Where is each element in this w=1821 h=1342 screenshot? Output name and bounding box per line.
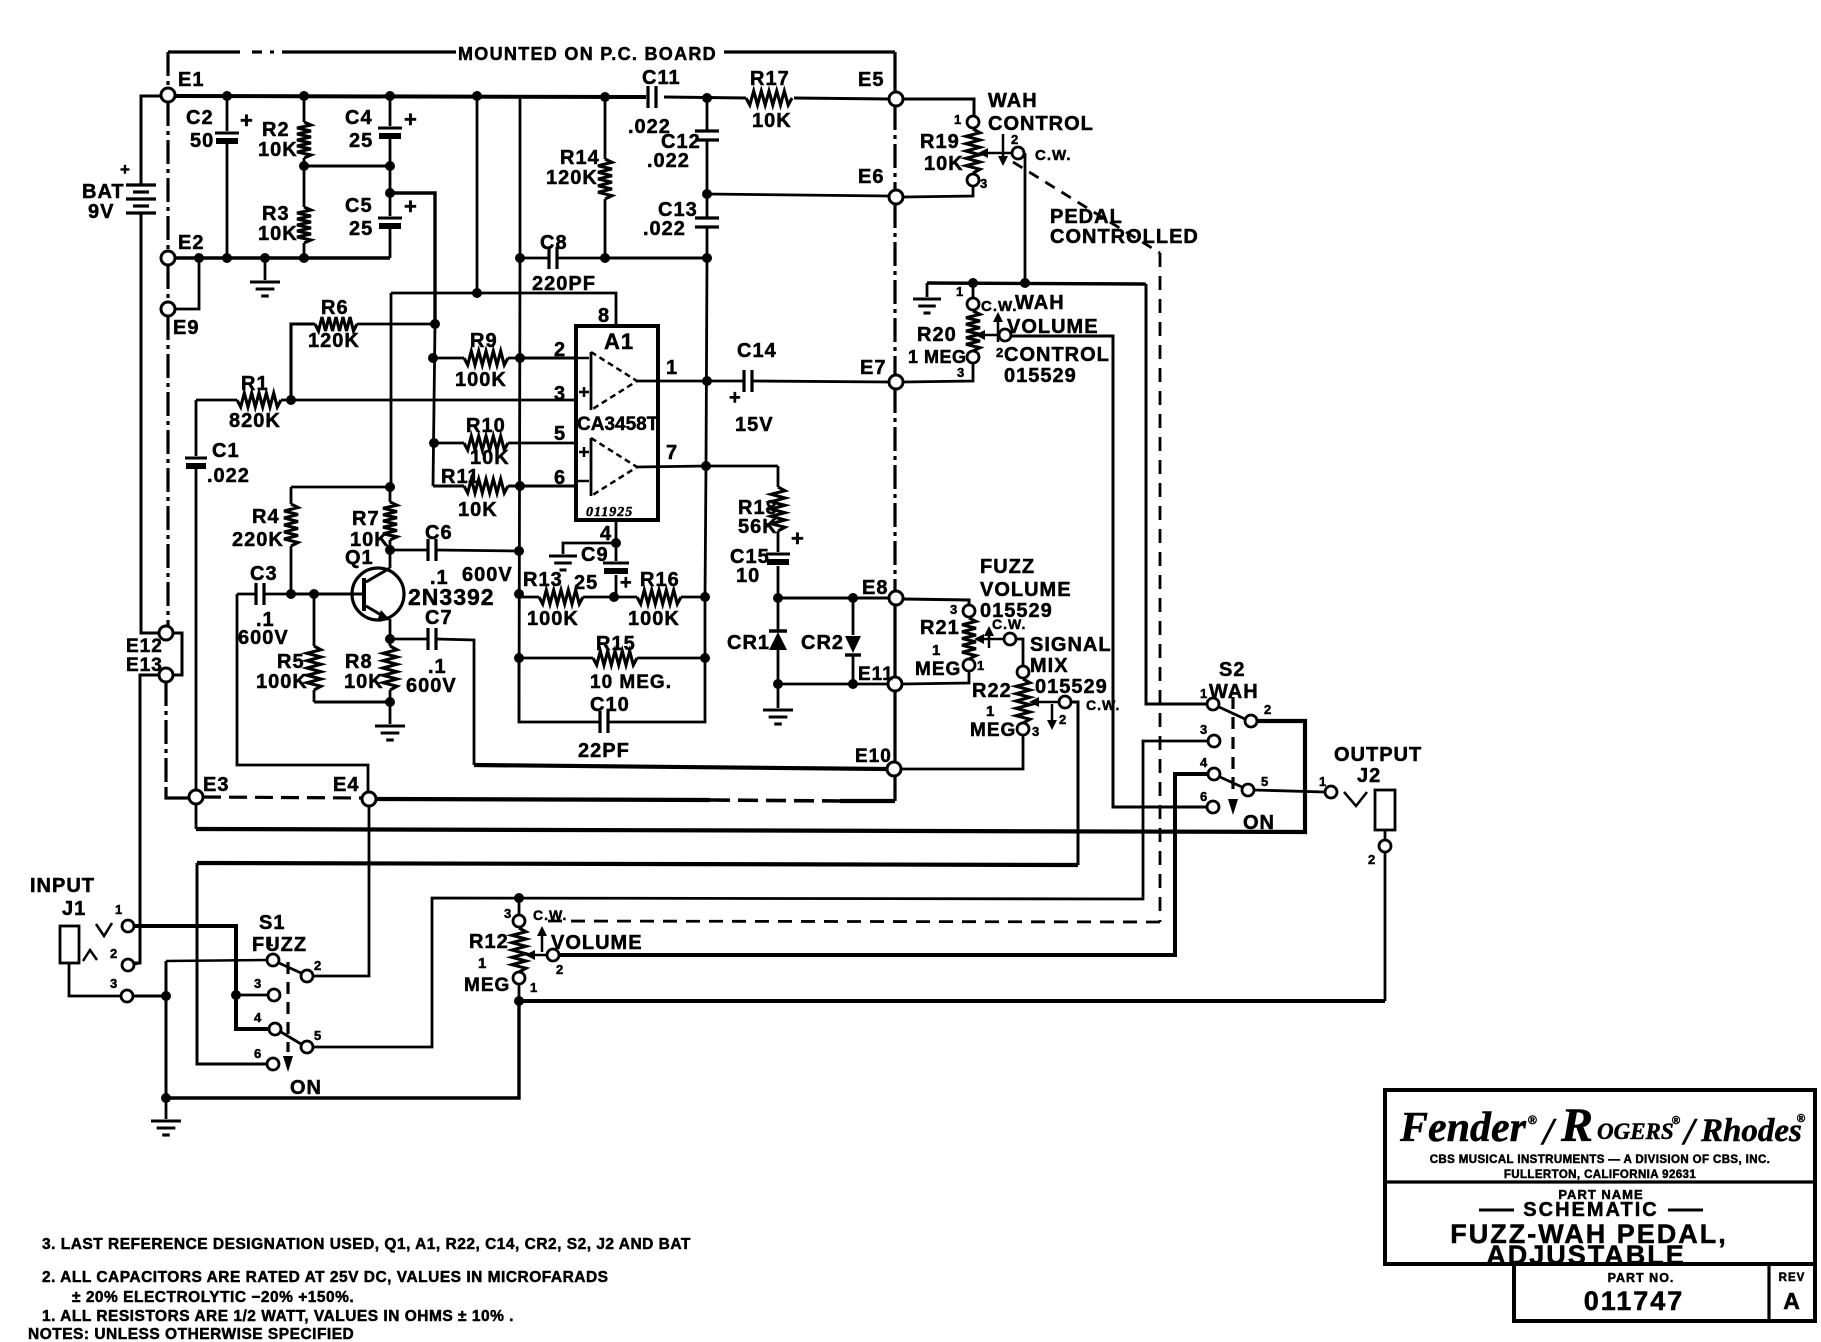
svg-text:+: + [404,194,418,219]
svg-text:R14: R14 [560,147,600,169]
svg-text:E8: E8 [862,577,888,599]
junction pin 4 node [611,538,621,548]
svg-text:R11: R11 [441,466,480,488]
svg-text:CONTROL: CONTROL [988,113,1094,135]
node E2 [161,232,204,265]
label 2 at R20 wiper [996,345,1004,360]
svg-text:2: 2 [314,958,322,973]
label WAH CONTROL [988,90,1094,135]
junction C15 / E8 line [773,593,783,603]
svg-text:C11: C11 [642,67,681,89]
svg-text:FUZZ: FUZZ [252,934,307,956]
svg-text:2: 2 [1059,712,1067,727]
svg-text:C10: C10 [590,694,630,716]
svg-text:820K: 820K [229,410,281,432]
junction C5 top node [385,188,395,198]
capacitor C7 .1 600V [390,607,474,765]
label: MOUNTED ON P.C. BOARD [458,44,717,64]
wire: PCB border left edge (dash-dot through E1,E2,E9,E12,E13) [166,52,168,790]
svg-text:22PF: 22PF [578,740,630,762]
resistor R4 220K [232,487,298,594]
wire: pin 4 [615,520,618,543]
svg-text:3: 3 [950,602,958,617]
resistor R18 56K [738,466,785,552]
svg-text:E9: E9 [173,317,199,339]
svg-text:56K: 56K [738,516,778,538]
svg-text:220PF: 220PF [532,273,596,295]
junction bias column / R9 left [428,353,438,363]
svg-text:2: 2 [554,339,566,361]
svg-text:1: 1 [932,642,941,659]
wire: E5 to R19 pin 1 [903,99,974,115]
svg-text:015529: 015529 [1004,365,1077,387]
capacitor C10 22PF [519,597,705,762]
label 2 at R22 wiper [1059,712,1067,727]
label PART NO [1608,1271,1675,1285]
switch S1 pin 5 [301,1028,322,1053]
svg-text:6: 6 [1200,789,1208,804]
svg-text:011925: 011925 [586,505,633,520]
svg-text:1: 1 [666,357,678,379]
resistor R2 10K [258,96,311,166]
label VOLUME at R12 [551,932,643,954]
svg-text:R5: R5 [277,651,305,673]
label FUZZ VOLUME 015529 [980,556,1072,622]
resistor R17 10K [746,68,792,132]
wire: R22 wiper to S1 pin 6 bus [1071,702,1078,865]
label 011747 [1584,1286,1685,1316]
resistor R11 10K [433,466,576,521]
svg-text:E11: E11 [858,664,894,685]
capacitor C14 15V [707,340,889,436]
wire: E2 bus [175,256,390,259]
svg-text:10K: 10K [258,223,298,245]
wire: PCB border top edge left segment [168,50,456,53]
label pin 2 [554,339,566,361]
svg-text:7: 7 [666,442,678,464]
switch S2 pin 3 [1200,722,1220,747]
switch S2 pin 5 [1242,774,1269,796]
svg-text:C7: C7 [425,607,453,629]
node E8 [862,577,903,605]
svg-text:C2: C2 [186,107,214,129]
svg-text:1: 1 [478,955,487,972]
svg-text:C3: C3 [250,563,278,585]
resistor R8 10K [344,639,397,702]
junction on bus at x477 column [472,91,482,101]
svg-text:50: 50 [190,130,214,152]
ground at E2 bus [250,258,280,296]
wire: J1 pin1 to S1 pins 3-4 (heavy) [134,926,268,1029]
capacitor C5 25 [345,166,418,258]
label SCHEMATIC [1479,1199,1703,1221]
junction E2 bus / ground [260,253,270,263]
svg-text:C9: C9 [581,544,609,566]
note line 3 [42,1236,691,1253]
svg-text:NOTES: UNLESS OTHERWISE SPECIF: NOTES: UNLESS OTHERWISE SPECIFIED [28,1326,354,1342]
wire: R4 top to collector [291,486,390,489]
note line 2 [42,1269,609,1286]
label ON at S2 [1243,812,1275,834]
junction output column / R15 [700,653,710,663]
logo Fender/Rogers/Rhodes [1399,1099,1806,1153]
svg-text:C.W.: C.W. [981,298,1018,315]
pedal arrow at R20 [993,312,1003,342]
svg-text:.022: .022 [643,218,686,240]
wiper of R21 [974,616,1026,645]
wire: C5 top to bias column [390,193,435,324]
label pin 7 [666,442,678,464]
svg-text:R13: R13 [523,569,563,591]
svg-text:C4: C4 [345,107,373,129]
junction J1 pin3 / ground column [161,991,171,1001]
capacitor C3 .1 600V [237,563,291,649]
svg-text:10 MEG.: 10 MEG. [590,672,672,693]
svg-text:R21: R21 [920,617,960,639]
junction R13/R16/C9 node [609,592,619,602]
jack J2 pin 1 [1319,774,1337,798]
junction S1 pin3 column [231,990,241,1000]
svg-text:6: 6 [554,467,566,489]
switch S2 link dashed [1228,697,1238,815]
svg-text:1: 1 [977,658,985,673]
junction feedback column / R13 [514,589,524,599]
switch S1 pin 6 [254,1046,279,1070]
junction R9 right / feedback column [515,353,525,363]
jack J2 contact [1344,792,1367,806]
wire: pedal controlled dashed diagonal [548,162,1160,922]
svg-text:R3: R3 [262,203,290,225]
svg-text:CONTROL: CONTROL [1004,344,1110,366]
svg-text:+: + [729,387,742,409]
capacitor C13 .022 [643,194,719,258]
wire: R19 pin 3 to E6 [903,187,973,197]
wire: E6 line [707,194,889,196]
svg-text:R12: R12 [469,931,509,953]
wire: PCB border bottom edge [166,790,895,801]
jack J1 INPUT [30,875,112,963]
svg-text:E13: E13 [126,655,163,676]
svg-text:25: 25 [574,572,598,594]
junction R12 pin1 node [514,996,524,1006]
svg-text:R: R [1560,1099,1594,1152]
svg-text:E5: E5 [858,69,884,91]
svg-text:3: 3 [980,176,988,191]
ground below R8 [375,702,405,740]
svg-text:A1: A1 [604,329,634,354]
wire: R20 pin3 to E7 [903,364,973,382]
wire: J2 rect to pin 2 [1384,830,1387,840]
svg-text:J2: J2 [1357,765,1381,787]
junction base / R5 [309,589,319,599]
ground at pin 4 [549,556,577,570]
wire: bias column (C5 top to R11) [433,324,435,486]
junction on bus at C11 left [600,92,610,102]
node E7 [860,357,903,389]
pedal arrow at R21 [984,626,994,648]
wire: op-amp pin 1 output [637,380,707,383]
wire: wah junction to S2 pin 1 [1146,284,1206,704]
diode CR2 [801,598,861,684]
svg-text:5: 5 [1261,774,1269,789]
label 2 at R19 wiper [1011,132,1019,147]
wire: feedback column x=520 [519,97,520,722]
junction R20 pin1 / bus [968,278,978,288]
junction C8 right / R14 [600,253,610,263]
svg-text:011747: 011747 [1584,1286,1685,1316]
capacitor C8 220PF [520,232,605,295]
svg-text:OGERS: OGERS [1597,1119,1674,1144]
junction pin8 wire / x477 column [472,288,482,298]
svg-text:S1: S1 [259,912,285,934]
pedal arrow at R19 [998,134,1008,166]
pedal arrow at R22 [1047,704,1057,730]
wire: pin7 to R18 [706,465,778,468]
switch S2 pin 1 [1200,686,1219,710]
svg-text:ON: ON [290,1077,322,1099]
label 2 at R12 wiper [556,962,564,977]
switch S2 pin 6 [1200,789,1219,813]
junction R2/R3/C4 link right [385,161,395,171]
wire: pin 8 supply [391,293,616,326]
svg-text:1: 1 [115,902,123,917]
svg-text:2: 2 [110,946,118,961]
svg-text:25: 25 [349,218,373,240]
resistor R13 100K [519,569,614,630]
svg-text:E1: E1 [178,69,204,91]
capacitor C1 .022 [185,400,250,790]
svg-text:+: + [240,108,254,133]
wire: PCB border right edge segments [893,106,896,801]
capacitor C2 50 [186,96,254,258]
label ADJUSTABLE [1486,1240,1686,1270]
svg-text:9V: 9V [88,201,114,223]
svg-text:120K: 120K [546,167,598,189]
switch S1 pin 3 [254,976,280,1001]
wiper of R12 [525,907,567,961]
svg-text:1: 1 [1319,774,1327,789]
wire: ground column [165,961,168,1098]
potentiometer R21 1MEG [915,602,985,680]
junction on bus at C11 right [702,93,712,103]
capacitor C9 25 [574,543,633,597]
wire: R21 pin1 to E11 [902,671,969,684]
svg-text:1 MEG: 1 MEG [908,347,967,367]
capacitor C15 10 [730,526,805,598]
junction pin 7 / C12 column [701,461,711,471]
svg-text:C.W.: C.W. [1035,147,1072,164]
logo subtext [1430,1154,1771,1181]
svg-text:R9: R9 [470,330,498,352]
svg-text:BAT: BAT [82,181,125,203]
node E1 [161,69,204,102]
wire: PCB border top edge right segment [724,50,895,53]
svg-text:E10: E10 [855,746,892,767]
note header [28,1326,354,1342]
label PEDAL CONTROLLED [1050,206,1199,248]
label WAH VOLUME CONTROL 015529 [1004,292,1110,387]
svg-text:220K: 220K [232,529,284,551]
op-amp U1 A1 CA3458T [576,326,659,520]
battery BAT 9V [82,96,161,223]
svg-text:J1: J1 [62,898,86,920]
transistor Q1 2N3392 [345,547,495,639]
capacitor C6 .1 600V [390,522,519,589]
pedal arrow at R12 [537,926,547,952]
svg-text:MEG: MEG [464,975,510,996]
svg-text:MIX: MIX [1030,655,1069,677]
resistor R15 10 MEG [519,633,705,693]
svg-text:R4: R4 [252,506,280,528]
svg-text:ON: ON [1243,812,1275,834]
svg-text:WAH: WAH [988,90,1038,112]
svg-text:1. ALL RESISTORS ARE 1/2: 1. ALL RESISTORS ARE 1/2 WATT, VALUES IN… [42,1308,514,1325]
svg-text:3. LAST REFERENCE DESIGNATI: 3. LAST REFERENCE DESIGNATION USED, Q1, … [42,1236,691,1253]
svg-text:600V: 600V [406,675,457,697]
svg-text:R1: R1 [241,373,269,395]
junction C6 right on feedback column [514,546,524,556]
svg-text:4: 4 [1200,755,1208,770]
potentiometer R19 10K [920,112,988,191]
wire: ground bus to R12 pin1 [166,1001,519,1098]
resistor R5 100K [256,594,321,702]
ground at input [151,1098,181,1135]
wire: wah volume top bus [927,283,1146,284]
junction R1/R6/pin3 node [286,395,296,405]
resistor R3 10K [258,166,311,258]
wire: S1 pin3 stub [236,994,268,997]
svg-text:R19: R19 [920,131,960,153]
node E4 [333,774,376,806]
svg-text:015529: 015529 [980,600,1053,622]
svg-text:3: 3 [1200,722,1208,737]
svg-text:100K: 100K [455,369,507,391]
svg-text:R16: R16 [640,569,680,591]
wire: C3 left to E4 [237,594,368,792]
node E6 [858,166,903,204]
svg-text:1: 1 [956,284,964,299]
wire: R19 wiper down to wah junction [1024,153,1027,283]
resistor R1 820K [196,373,291,432]
svg-text:MEG: MEG [915,659,961,680]
svg-text:10: 10 [736,565,760,587]
junction E2 bus / C2 [222,253,232,263]
node E9 [161,302,199,339]
title block frame [1385,1090,1815,1321]
wire: C7 to E10 (heavy) [474,765,887,769]
svg-text:10K: 10K [458,499,498,521]
junction R19 wiper / bus [1020,278,1030,288]
svg-text:10K: 10K [344,671,384,693]
switch S1 pin 2 [301,958,322,982]
junction R11 right / feedback column [515,481,525,491]
jack J2 OUTPUT [1334,744,1422,830]
switch S1 arm 4-5 [281,1032,301,1044]
svg-text:C.W.: C.W. [533,907,567,923]
svg-text:®: ® [1672,1115,1681,1127]
svg-text:R17: R17 [750,68,790,90]
svg-text:.022: .022 [207,465,250,487]
node E12 [126,626,173,657]
svg-text:+: + [404,107,418,132]
svg-text:10K: 10K [350,529,390,551]
label S2 WAH [1209,659,1259,703]
wire: R21 wiper to R22 top [1016,639,1023,666]
svg-text:R10: R10 [466,415,506,437]
wire: J1 sleeve to ground node [69,963,166,996]
svg-text:.022: .022 [647,150,690,172]
jack J1 pin 2 [110,946,134,971]
svg-text:2: 2 [556,962,564,977]
label pin 8 [598,305,610,327]
diode CR1 [727,598,787,684]
op-amp A1 second amplifier triangle [578,438,637,496]
switch S2 arm 4-5 [1220,777,1242,787]
svg-text:E7: E7 [860,357,886,379]
svg-text:R15: R15 [596,633,636,655]
svg-text:600V: 600V [462,564,513,586]
wire: E8 to R21 pin 3 [903,599,969,605]
svg-text:E6: E6 [858,166,884,188]
svg-text:REV: REV [1779,1272,1806,1284]
svg-text:3: 3 [554,383,566,405]
wire: +9V bus from E1 to E5 [175,96,889,99]
wire: E12-E13 jumper [173,633,182,675]
label SIGNAL MIX 015529 [1030,634,1112,698]
junction feedback column / R15 [514,653,524,663]
wire: C8 to C13 bottom [605,256,707,259]
junction E2 bus / E9 loop [194,253,204,263]
svg-text:/: / [1681,1111,1698,1153]
svg-text:CBS MUSICAL INSTRUMENTS —: CBS MUSICAL INSTRUMENTS — A DIVISION OF … [1430,1154,1771,1166]
junction R4 top / collector column [385,482,395,492]
resistor R7 10K [350,487,397,551]
wire: S1 pin6 to R22 wiper bus (heavy) [197,863,1078,1064]
potentiometer R20 1MEG [908,283,980,380]
wire: op-amp pin 7 output [637,466,706,467]
junction on bus at C2 [222,91,232,101]
potentiometer R12 1MEG [464,898,538,1001]
wiper of R20 [975,298,1018,341]
wire: x477 column to +9V bus [476,97,479,293]
wire: Q1 base wire [291,593,364,596]
wire: R12 wiper to S2 pin4 (heavy) [560,774,1207,955]
node E3 [189,774,229,804]
svg-text:5: 5 [554,423,566,445]
junction CR1 / E11 line [773,679,783,689]
jack J1 pin 3 [110,976,133,1002]
wire: op-amp pin 3 line [291,399,576,402]
svg-text:+: + [120,160,131,179]
label PART NAME [1558,1187,1643,1202]
wire: R20 wiper to S2 pin 6 [1011,336,1206,807]
jack J1 pin 1 [115,902,134,932]
svg-text:PART NO.: PART NO. [1608,1271,1675,1285]
capacitor C12 .022 [647,98,719,194]
svg-text:MOUNTED ON P.C. BOARD: MOUNTED ON P.C. BOARD [458,44,717,64]
svg-text:®: ® [1797,1113,1806,1125]
svg-text:120K: 120K [308,330,360,352]
switch S2 pin 4 [1200,755,1220,780]
svg-text:E4: E4 [333,774,359,796]
op-amp A1 first amplifier triangle [578,352,637,410]
junction on bus at R2 [299,91,309,101]
svg-text:015529: 015529 [1035,676,1108,698]
resistor R14 120K [546,97,612,258]
svg-text:± 20% ELECTROLYTIC −20% +15: ± 20% ELECTROLYTIC −20% +150%. [72,1289,354,1306]
svg-text:2: 2 [1368,852,1376,867]
ground below CR1 [763,684,793,724]
